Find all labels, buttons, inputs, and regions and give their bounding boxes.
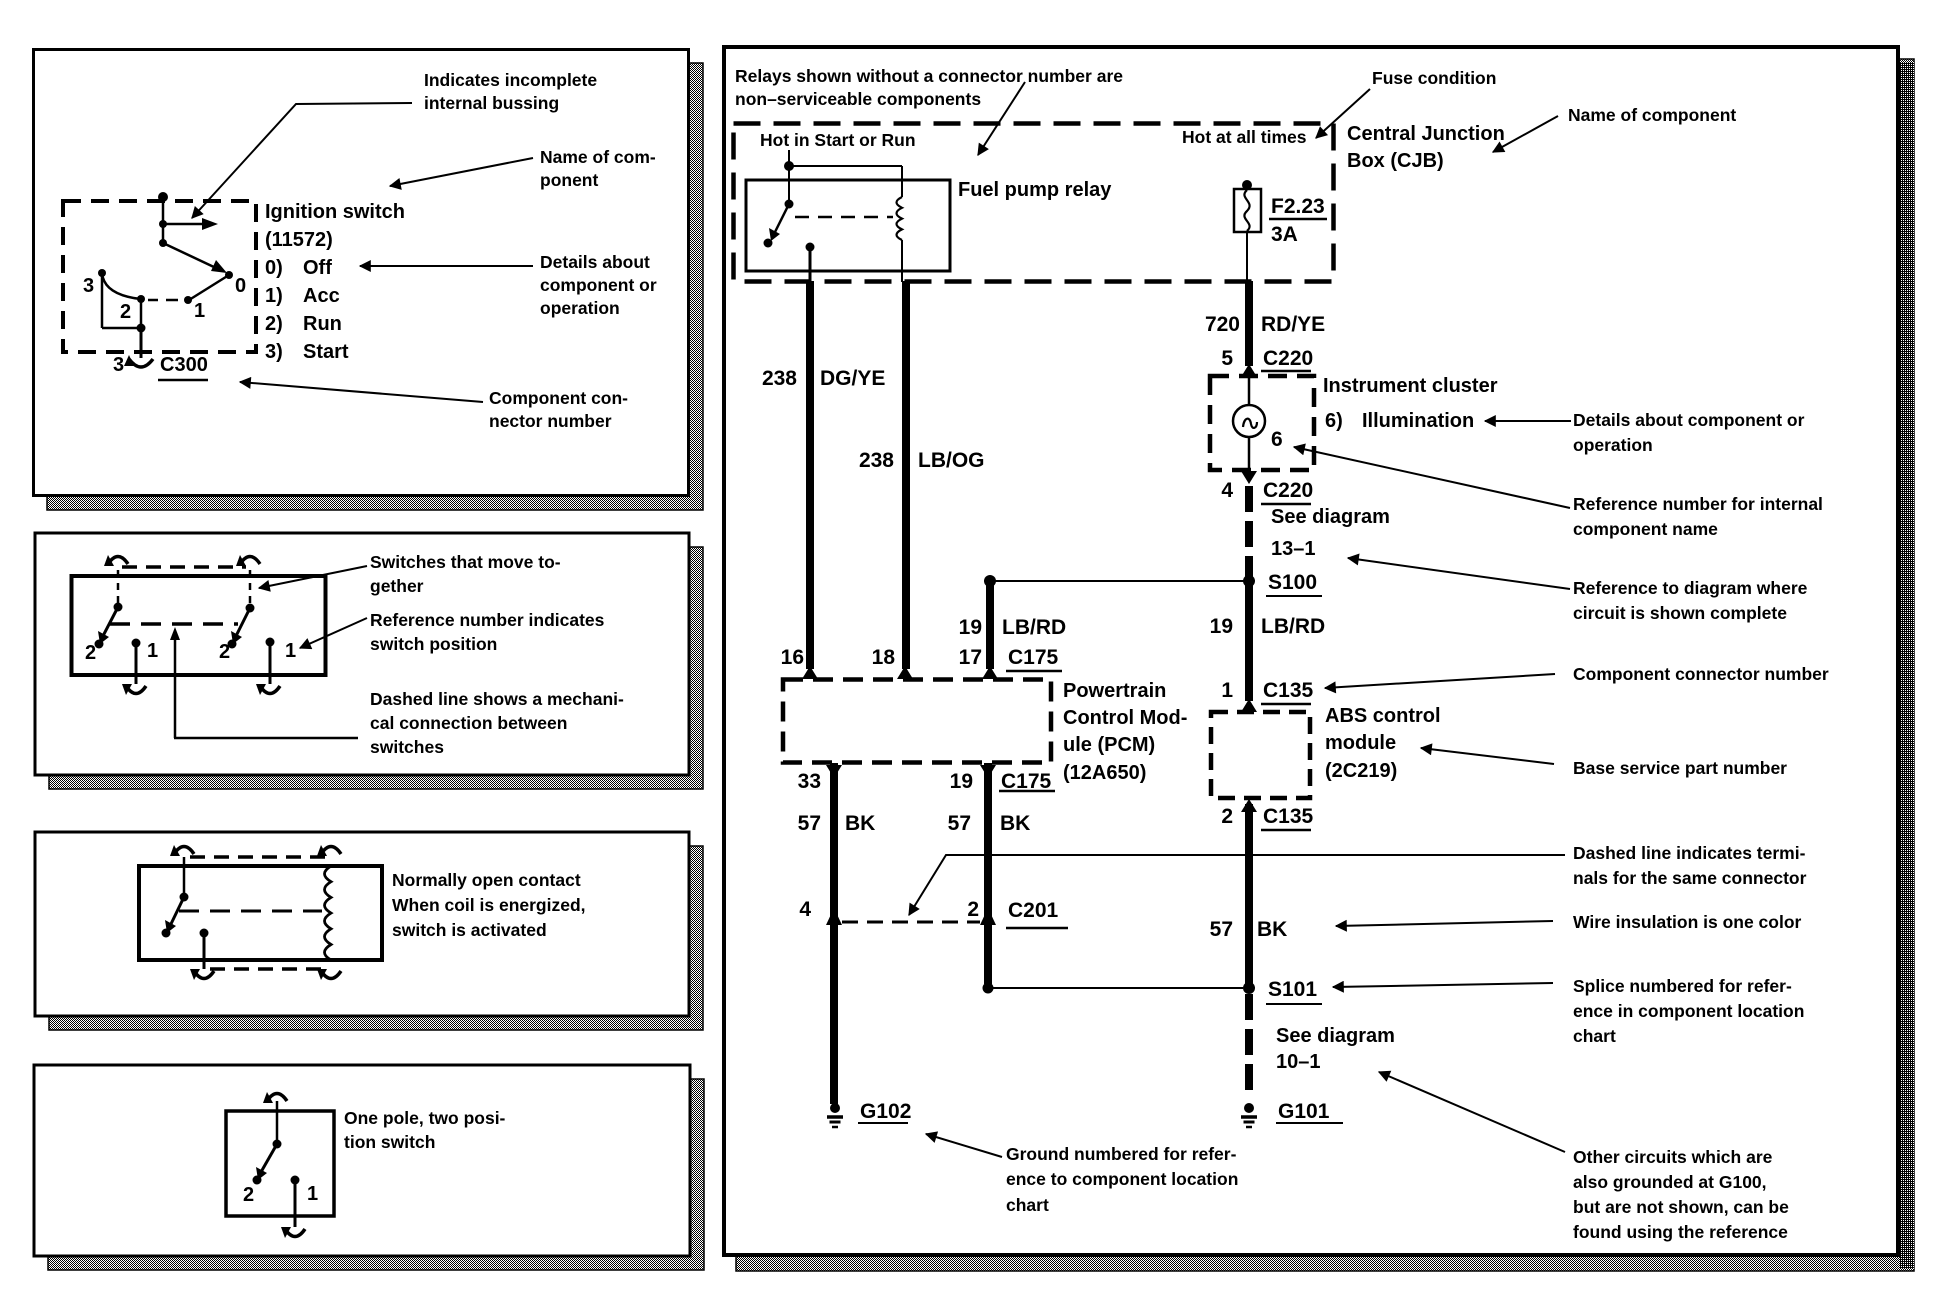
wire 238 DG/YE	[806, 281, 814, 669]
relay switch pivot dot	[180, 893, 189, 902]
svg-text:0: 0	[235, 275, 246, 297]
svg-text:chart: chart	[1573, 1026, 1616, 1046]
switch A contact 1 dot	[132, 639, 141, 648]
svg-text:circuit is shown complete: circuit is shown complete	[1573, 603, 1787, 623]
wire 720 RD/YE	[1245, 281, 1253, 366]
hook arrow switch B top	[240, 557, 260, 565]
svg-text:BK: BK	[1257, 918, 1287, 941]
hook arrow relay switch top	[174, 847, 194, 855]
svg-text:module: module	[1325, 732, 1396, 754]
leader from middle dashed link	[170, 627, 180, 640]
wire lamp to C220 pin 4	[1248, 437, 1251, 470]
legend panel 1 frame	[34, 50, 689, 496]
svg-text:19: 19	[959, 616, 982, 639]
relay K2 output contact dot	[806, 243, 815, 252]
connector C220 pin 4	[1241, 471, 1257, 484]
legend panel 1 shadow	[47, 63, 703, 510]
svg-text:cal connection between: cal connection between	[370, 713, 567, 733]
relay K1 housing	[139, 866, 382, 960]
relay fixed contact dot left	[162, 929, 171, 938]
switch A feed dashed	[117, 570, 120, 604]
svg-text:Details about component or: Details about component or	[1573, 410, 1805, 430]
wire bus to wiper pivot	[162, 224, 165, 243]
svg-text:Start: Start	[303, 341, 349, 363]
svg-text:non–serviceable components: non–serviceable components	[735, 89, 981, 109]
svg-text:Splice numbered for refer-: Splice numbered for refer-	[1573, 976, 1792, 996]
svg-text:Dashed line indicates termi-: Dashed line indicates termi-	[1573, 843, 1806, 863]
svg-text:2): 2)	[265, 313, 283, 335]
svg-text:Normally open contact: Normally open contact	[392, 870, 581, 890]
hook arrow switch top	[267, 1094, 287, 1102]
mechanical link dashed line top	[122, 565, 246, 569]
ignition switch pin B (battery feed) dot	[158, 192, 168, 202]
node feed junction dot	[784, 161, 794, 171]
output wire through housing to connector	[140, 328, 143, 358]
svg-text:720: 720	[1205, 313, 1240, 336]
node bus junction	[159, 220, 167, 228]
svg-text:3): 3)	[265, 341, 283, 363]
legend panel 3 frame	[35, 832, 689, 1016]
contact 2 dot	[253, 1176, 262, 1185]
svg-text:57: 57	[1210, 918, 1233, 941]
ground G102	[830, 1103, 840, 1113]
switch A contact 2 dot	[95, 640, 104, 649]
fuse F2.23 top dot	[1242, 180, 1252, 190]
legend panel 4 frame	[34, 1065, 690, 1256]
wire 19 LB/RD right	[1245, 581, 1253, 701]
svg-text:Instrument cluster: Instrument cluster	[1323, 375, 1498, 397]
svg-text:S100: S100	[1268, 571, 1317, 594]
svg-text:Switches that move to-: Switches that move to-	[370, 552, 561, 572]
svg-text:Component con-: Component con-	[489, 388, 628, 408]
svg-text:operation: operation	[1573, 435, 1653, 455]
svg-text:Ground numbered for refer-: Ground numbered for refer-	[1006, 1144, 1237, 1164]
leader to connector number	[240, 382, 483, 402]
leader to BK	[1336, 921, 1553, 926]
switch A arm	[103, 607, 118, 636]
ground G101	[1244, 1103, 1254, 1113]
switch B arm	[236, 608, 250, 636]
svg-text:Hot in Start or Run: Hot in Start or Run	[760, 130, 916, 150]
relay bottom dashed connector line	[210, 967, 327, 971]
svg-text:(11572): (11572)	[265, 229, 333, 251]
splice node to S101	[983, 983, 994, 994]
svg-text:F2.23: F2.23	[1271, 195, 1325, 218]
wire into lamp	[1248, 378, 1251, 406]
relay output wire	[203, 933, 206, 969]
relay output contact dot	[200, 929, 209, 938]
leader to 2C219	[1421, 748, 1554, 764]
wire across to output node	[102, 327, 141, 330]
switch B contact 1 dot	[266, 638, 275, 647]
leader to details	[360, 265, 533, 267]
wire contact 3 down	[101, 273, 104, 328]
svg-text:but are not shown, can be: but are not shown, can be	[1573, 1197, 1789, 1217]
svg-text:33: 33	[798, 770, 821, 793]
svg-text:Ignition switch: Ignition switch	[265, 201, 405, 223]
wire pin B to bus node	[162, 197, 165, 224]
central junction box CJB dashed outline	[734, 124, 1334, 282]
hook arrow switch bottom	[285, 1229, 305, 1237]
svg-text:3: 3	[113, 354, 124, 376]
ignition switch wiper pivot dot	[159, 239, 167, 247]
svg-text:Base service part number: Base service part number	[1573, 758, 1787, 778]
fuel pump relay K2 housing	[746, 180, 950, 271]
connector C201 arrows	[826, 908, 842, 925]
wire feed to coil branch	[789, 165, 902, 167]
contact position 3 dot	[98, 269, 106, 277]
wire 238 LB/OG	[902, 281, 910, 669]
svg-text:component or: component or	[540, 275, 657, 295]
svg-text:Box (CJB): Box (CJB)	[1347, 150, 1444, 172]
wire shown elsewhere (dashed) to S100	[1245, 486, 1253, 578]
svg-text:Reference number for internal: Reference number for internal	[1573, 494, 1823, 514]
leader to fuel pump relay	[978, 82, 1025, 155]
svg-text:C201: C201	[1008, 899, 1059, 922]
leader to G102	[926, 1134, 1002, 1157]
wire contact 2 down to output node	[140, 299, 143, 328]
svg-text:Relays shown without a connect: Relays shown without a connector number …	[735, 66, 1123, 86]
svg-text:ence to component location: ence to component location	[1006, 1169, 1238, 1189]
leader to CJB name	[1493, 116, 1558, 152]
svg-text:6: 6	[1271, 428, 1283, 451]
ganged switch housing	[72, 576, 326, 675]
svg-text:Indicates incomplete: Indicates incomplete	[424, 70, 597, 90]
svg-text:1: 1	[1221, 679, 1233, 702]
wire 19 LB/RD branch to PCM	[986, 581, 994, 669]
svg-text:Name of component: Name of component	[1568, 105, 1736, 125]
wire shown elsewhere (dashed) to G101	[1245, 994, 1253, 1094]
svg-text:Reference number indicates: Reference number indicates	[370, 610, 605, 630]
svg-text:internal bussing: internal bussing	[424, 93, 559, 113]
svg-text:ence in component location: ence in component location	[1573, 1001, 1804, 1021]
svg-text:Off: Off	[303, 257, 332, 279]
sample diagram panel shadow	[736, 59, 1914, 1271]
arc contact 3 to contact 2	[102, 273, 141, 299]
svg-text:Acc: Acc	[303, 285, 340, 307]
leader to ganged switch	[259, 566, 367, 588]
wire coil feed down	[901, 166, 903, 197]
legend panel 3 shadow	[49, 846, 703, 1030]
svg-text:ABS control: ABS control	[1325, 705, 1441, 727]
connector C135 pin 2	[1241, 799, 1257, 812]
wire output contact to CJB edge	[809, 247, 812, 282]
svg-text:C300: C300	[160, 354, 208, 376]
svg-text:G102: G102	[860, 1100, 911, 1123]
svg-text:switch is activated: switch is activated	[392, 920, 547, 940]
dashed link contact 1 to contact 2	[148, 299, 178, 302]
leader to S101	[1333, 983, 1553, 987]
relay K2 armature dashed link	[795, 216, 893, 219]
mechanical link dashed line middle	[110, 622, 238, 626]
instrument cluster dashed outline	[1210, 376, 1314, 470]
leader to internal reference 6	[1294, 447, 1570, 508]
output node junction dot	[137, 324, 146, 333]
switch feed wire	[276, 1101, 279, 1142]
svg-text:(12A650): (12A650)	[1063, 762, 1146, 784]
hook arrow relay coil top	[321, 847, 341, 855]
svg-text:2: 2	[1221, 805, 1233, 828]
svg-text:Fuel pump relay: Fuel pump relay	[958, 179, 1112, 201]
svg-text:ponent: ponent	[540, 170, 598, 190]
svg-text:C175: C175	[1008, 646, 1059, 669]
sample diagram panel frame	[724, 47, 1898, 1255]
leader to component name	[390, 158, 533, 186]
svg-text:Hot at all times: Hot at all times	[1182, 127, 1307, 147]
svg-text:(2C219): (2C219)	[1325, 760, 1397, 782]
svg-text:3A: 3A	[1271, 223, 1298, 246]
svg-text:10–1: 10–1	[1276, 1051, 1321, 1073]
leader to switch position label	[300, 618, 367, 648]
contact position 1 dot	[184, 296, 192, 304]
relay K2 switch arm	[774, 204, 789, 234]
incomplete internal bussing arrow	[163, 223, 204, 226]
svg-text:Dashed line shows a mechani-: Dashed line shows a mechani-	[370, 689, 624, 709]
svg-text:nals for the same connector: nals for the same connector	[1573, 868, 1807, 888]
contact 1 output wire	[294, 1180, 297, 1227]
leader to 13-1	[1348, 558, 1570, 589]
connector arrows into PCM	[802, 666, 818, 679]
svg-text:Other circuits which are: Other circuits which are	[1573, 1147, 1773, 1167]
leader to C135	[1325, 674, 1555, 688]
wire 57 BK right	[1245, 804, 1253, 984]
svg-text:LB/RD: LB/RD	[1002, 616, 1066, 639]
leader to internal bussing arrow	[192, 103, 412, 218]
svg-text:C135: C135	[1263, 679, 1314, 702]
switch B contact 2 dot	[228, 640, 237, 649]
contact position 2 dot	[137, 295, 145, 303]
svg-text:also grounded at G100,: also grounded at G100,	[1573, 1172, 1767, 1192]
svg-text:57: 57	[798, 812, 821, 835]
hook arrow switch B bottom	[260, 686, 280, 694]
wire coil to CJB edge	[901, 240, 903, 282]
svg-text:DG/YE: DG/YE	[820, 367, 885, 390]
switch B feed dashed	[249, 570, 252, 604]
svg-text:LB/RD: LB/RD	[1261, 615, 1325, 638]
switch A pivot dot	[114, 603, 123, 612]
svg-text:3: 3	[83, 275, 94, 297]
svg-text:C220: C220	[1263, 479, 1313, 502]
wire contact 0 to contact 1	[189, 275, 229, 300]
svg-text:19: 19	[950, 770, 973, 793]
svg-text:238: 238	[859, 449, 894, 472]
svg-text:4: 4	[799, 898, 811, 921]
svg-text:See diagram: See diagram	[1276, 1025, 1395, 1047]
switch pivot dot	[273, 1140, 282, 1149]
svg-text:6): 6)	[1325, 410, 1343, 432]
svg-text:18: 18	[872, 646, 896, 669]
svg-text:0): 0)	[265, 257, 283, 279]
hook arrow switch A bottom	[126, 686, 146, 694]
svg-text:C175: C175	[1001, 770, 1052, 793]
svg-text:One pole, two posi-: One pole, two posi-	[344, 1108, 506, 1128]
svg-text:1): 1)	[265, 285, 283, 307]
legend panel 2 shadow	[49, 547, 703, 789]
ABS control module dashed outline	[1211, 712, 1310, 798]
relay switch feed wire	[183, 857, 186, 895]
leader to see diagram 10-1	[1379, 1072, 1565, 1152]
svg-text:component name: component name	[1573, 519, 1718, 539]
svg-text:1: 1	[285, 640, 296, 662]
svg-text:gether: gether	[370, 576, 424, 596]
hook arrow relay coil bottom	[321, 971, 341, 979]
connector hook arrow C300	[129, 359, 153, 367]
svg-text:13–1: 13–1	[1271, 538, 1316, 560]
leader to hot at all times	[1316, 89, 1370, 138]
svg-text:G101: G101	[1278, 1100, 1330, 1123]
svg-text:operation: operation	[540, 298, 620, 318]
contact 1 dot	[291, 1176, 300, 1185]
svg-text:19: 19	[1210, 615, 1233, 638]
svg-text:2: 2	[243, 1184, 254, 1206]
wire feed from Hot in Start or Run	[788, 150, 790, 202]
svg-text:BK: BK	[845, 812, 875, 835]
svg-text:2: 2	[120, 301, 131, 323]
svg-text:LB/OG: LB/OG	[918, 449, 985, 472]
hook arrow relay switch bottom	[194, 971, 214, 979]
wire 57 BK left (pin 33)	[830, 763, 838, 1104]
illumination lamp E1	[1233, 405, 1265, 437]
svg-text:When coil is energized,: When coil is energized,	[392, 895, 586, 915]
svg-text:Fuse condition: Fuse condition	[1372, 68, 1496, 88]
svg-text:BK: BK	[1000, 812, 1030, 835]
svg-text:Details about: Details about	[540, 252, 650, 272]
svg-text:Reference to diagram where: Reference to diagram where	[1573, 578, 1808, 598]
hook arrow switch A top	[108, 557, 128, 565]
svg-text:Control Mod-: Control Mod-	[1063, 707, 1187, 729]
switch A output wire	[135, 643, 138, 684]
leader to C201 dashed line	[909, 855, 1565, 915]
svg-text:switches: switches	[370, 737, 444, 757]
relay K2 fixed contact dot	[764, 239, 773, 248]
svg-text:Wire insulation is one color: Wire insulation is one color	[1573, 912, 1802, 932]
svg-text:Name of com-: Name of com-	[540, 147, 656, 167]
legend panel 4 shadow	[48, 1079, 704, 1270]
svg-text:2: 2	[85, 642, 96, 664]
ignition switch SW1 dashed housing	[63, 201, 256, 352]
relay armature dashed link	[179, 910, 322, 913]
leader to illumination	[1485, 420, 1571, 422]
svg-text:1: 1	[147, 640, 158, 662]
ignition switch wiper arm	[163, 243, 216, 268]
relay K2 coil winding	[897, 197, 903, 240]
switch B output wire	[269, 642, 272, 684]
svg-text:5: 5	[1221, 347, 1233, 370]
svg-text:C220: C220	[1263, 347, 1313, 370]
svg-text:17: 17	[959, 646, 982, 669]
svg-text:Run: Run	[303, 313, 342, 335]
fuse F2.23 element	[1244, 190, 1249, 231]
svg-text:1: 1	[194, 300, 205, 322]
svg-text:238: 238	[762, 367, 797, 390]
svg-text:chart: chart	[1006, 1195, 1049, 1215]
splice S100	[990, 580, 1249, 582]
switch B pivot dot	[246, 604, 255, 613]
contact position 0 dot	[225, 271, 233, 279]
relay K2 switch pivot dot	[785, 200, 794, 209]
svg-text:C135: C135	[1263, 805, 1314, 828]
svg-text:4: 4	[1221, 479, 1233, 502]
svg-text:S101: S101	[1268, 978, 1317, 1001]
svg-text:2: 2	[967, 898, 979, 921]
connector arrows out of PCM	[826, 765, 842, 778]
relay switch arm (normally open)	[170, 897, 184, 926]
svg-text:RD/YE: RD/YE	[1261, 313, 1325, 336]
svg-text:ule (PCM): ule (PCM)	[1063, 734, 1155, 756]
wire 57 BK middle (pin 19)	[984, 763, 992, 984]
svg-text:switch position: switch position	[370, 634, 497, 654]
svg-text:nector number: nector number	[489, 411, 612, 431]
svg-text:16: 16	[781, 646, 804, 669]
splice S101	[1243, 982, 1255, 994]
wire fuse to CJB edge	[1246, 232, 1248, 282]
svg-text:2: 2	[219, 641, 230, 663]
svg-text:Powertrain: Powertrain	[1063, 680, 1166, 702]
one pole two position switch housing	[226, 1111, 334, 1216]
connector C201 dashed line	[842, 921, 980, 924]
svg-text:Central Junction: Central Junction	[1347, 123, 1505, 145]
relay coil winding	[325, 866, 332, 960]
powertrain control module PCM dashed outline	[783, 680, 1051, 763]
switch arm	[261, 1144, 277, 1172]
legend panel 2 frame	[35, 533, 689, 775]
svg-text:tion switch: tion switch	[344, 1132, 435, 1152]
relay top dashed connector line	[190, 855, 327, 859]
svg-text:Component connector number: Component connector number	[1573, 664, 1829, 684]
svg-text:Illumination: Illumination	[1362, 410, 1474, 432]
svg-text:57: 57	[948, 812, 971, 835]
svg-text:found using the reference: found using the reference	[1573, 1222, 1788, 1242]
fuse F2.23 body	[1234, 189, 1261, 232]
svg-text:1: 1	[307, 1183, 318, 1205]
svg-text:See diagram: See diagram	[1271, 506, 1390, 528]
